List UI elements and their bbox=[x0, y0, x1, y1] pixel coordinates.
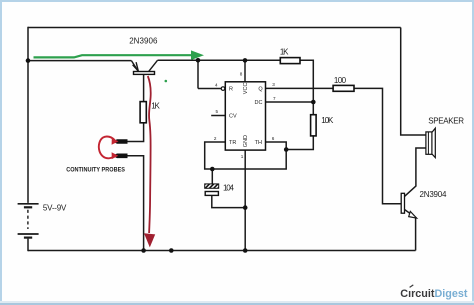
node dot cap top junction bbox=[210, 167, 215, 172]
wire 1K top elbow to 10K bbox=[300, 60, 313, 114]
annotation green arrowhead bbox=[191, 50, 204, 60]
transistor Q2 2N3904 emitter arrowhead bbox=[409, 211, 417, 218]
battery BT1 plate short bottom bbox=[24, 237, 32, 239]
svg-text:CONTINUITY PROBES: CONTINUITY PROBES bbox=[66, 166, 125, 173]
svg-text:4: 4 bbox=[215, 82, 218, 87]
svg-text:1K: 1K bbox=[280, 47, 289, 56]
wire Q pin3 bbox=[266, 87, 334, 89]
svg-text:R: R bbox=[229, 87, 233, 93]
svg-text:CV: CV bbox=[229, 114, 237, 120]
svg-text:DC: DC bbox=[255, 100, 263, 106]
wire 100 to base bbox=[354, 88, 401, 203]
annotation red long arrow line bbox=[148, 76, 151, 233]
svg-text:2N3904: 2N3904 bbox=[420, 190, 448, 199]
svg-text:SPEAKER: SPEAKER bbox=[428, 117, 464, 126]
svg-text:6: 6 bbox=[272, 136, 275, 141]
resistor R4 1K (probe) bbox=[140, 102, 146, 123]
capacitor C1 bottom plate bbox=[205, 192, 218, 196]
wire CV pin5 stub bbox=[211, 115, 225, 117]
wire R pin4 bbox=[198, 60, 221, 88]
speaker SP1 driver inner line bbox=[427, 132, 429, 154]
annotation green arrow line bbox=[34, 55, 193, 57]
battery BT1 dashed middle bbox=[27, 210, 29, 229]
transistor Q1 2N3906 emitter diagonal bbox=[131, 61, 138, 72]
svg-text:5: 5 bbox=[215, 109, 218, 114]
wire top rail bbox=[28, 27, 401, 29]
wire bottom rail bbox=[28, 250, 416, 252]
wire emitter feed bbox=[28, 60, 131, 62]
svg-text:2: 2 bbox=[214, 136, 217, 141]
speaker SP1 cone bbox=[432, 128, 435, 157]
node dot left edge emitter feed bbox=[26, 58, 31, 63]
transistor Q1 2N3906 collector diagonal bbox=[149, 60, 158, 71]
probe tip 1 bbox=[112, 139, 127, 144]
svg-text:1K: 1K bbox=[151, 102, 160, 111]
wire 10K bottom bbox=[286, 136, 313, 150]
svg-text:1: 1 bbox=[241, 154, 244, 159]
svg-text:TH: TH bbox=[255, 140, 262, 146]
wire 1K probe resistor to probe1 bbox=[125, 123, 144, 142]
wire left edge lower bbox=[27, 239, 29, 252]
capacitor C1 hatched plate bbox=[205, 184, 219, 188]
transistor Q2 2N3904 emitter diagonal bbox=[405, 210, 417, 219]
wire vcc rail bbox=[158, 59, 281, 61]
svg-text:8: 8 bbox=[240, 72, 243, 77]
battery BT1 plate short top bbox=[24, 206, 32, 208]
wire emitter 2N3904 down bbox=[415, 218, 417, 251]
annotation red loop arrowhead 1 bbox=[112, 138, 119, 145]
battery BT1 plate long bottom bbox=[18, 233, 39, 235]
wire cap bottom bbox=[212, 195, 245, 207]
wire right top to speaker bbox=[401, 28, 426, 136]
op-amp U1 555 timer body bbox=[225, 82, 265, 150]
probe tip 2 bbox=[112, 154, 127, 159]
node dot cap bottom junction bbox=[243, 205, 248, 210]
svg-text:GND: GND bbox=[243, 135, 249, 147]
svg-text:10K: 10K bbox=[321, 116, 334, 125]
node dot vcc pin8 bbox=[243, 58, 248, 63]
wire speaker bottom to collector bbox=[405, 148, 426, 196]
annotation red loop arrowhead 2 bbox=[112, 152, 119, 159]
node dot gnd rail pin1 bbox=[243, 248, 248, 253]
svg-text:104: 104 bbox=[223, 183, 235, 192]
svg-text:CırcuitDigest: CırcuitDigest bbox=[400, 288, 468, 300]
pin bubble R pin4 bbox=[221, 87, 225, 91]
annotation red probe loop bbox=[99, 136, 115, 158]
annotation green speck bbox=[165, 80, 168, 83]
battery BT1 plate long top bbox=[18, 203, 39, 205]
wire probe2 to ground rail bbox=[125, 156, 144, 251]
svg-text:2N3906: 2N3906 bbox=[129, 36, 158, 45]
resistor R3 10K bbox=[311, 115, 317, 136]
svg-text:7: 7 bbox=[273, 96, 276, 101]
node dot pin4 riser bbox=[196, 58, 201, 63]
wire GND pin1 bbox=[244, 150, 246, 251]
node dot DC junction bbox=[311, 100, 316, 105]
wire VCC pin8 bbox=[244, 60, 246, 82]
svg-text:5V--9V: 5V--9V bbox=[43, 203, 67, 212]
node dot gnd rail probe2 bbox=[141, 248, 146, 253]
svg-text:100: 100 bbox=[334, 76, 347, 85]
wire cap top bbox=[211, 169, 213, 184]
resistor R2 100 bbox=[333, 85, 354, 91]
speaker SP1 driver bbox=[426, 132, 432, 154]
wire TR pin2 routing bbox=[205, 142, 287, 169]
svg-text:Q: Q bbox=[258, 87, 263, 93]
svg-text:TR: TR bbox=[229, 140, 236, 146]
annotation red long arrowhead bbox=[144, 233, 155, 247]
transistor Q1 2N3906 emitter arrowhead bbox=[133, 62, 139, 71]
node dot 10K bottom junction bbox=[284, 147, 289, 152]
logo accent over i bbox=[410, 285, 414, 288]
wire base 2N3906 bbox=[143, 74, 145, 101]
svg-text:VCC: VCC bbox=[243, 83, 249, 95]
wire left edge upper bbox=[27, 27, 29, 203]
svg-text:3: 3 bbox=[272, 82, 275, 87]
transistor Q2 2N3904 base bar bbox=[401, 193, 404, 213]
node dot gnd rail extra bbox=[169, 248, 174, 253]
resistor R1 1K (top) bbox=[280, 58, 300, 64]
wire DC pin7 bbox=[266, 101, 314, 103]
transistor Q1 2N3906 base bar bbox=[134, 72, 155, 75]
